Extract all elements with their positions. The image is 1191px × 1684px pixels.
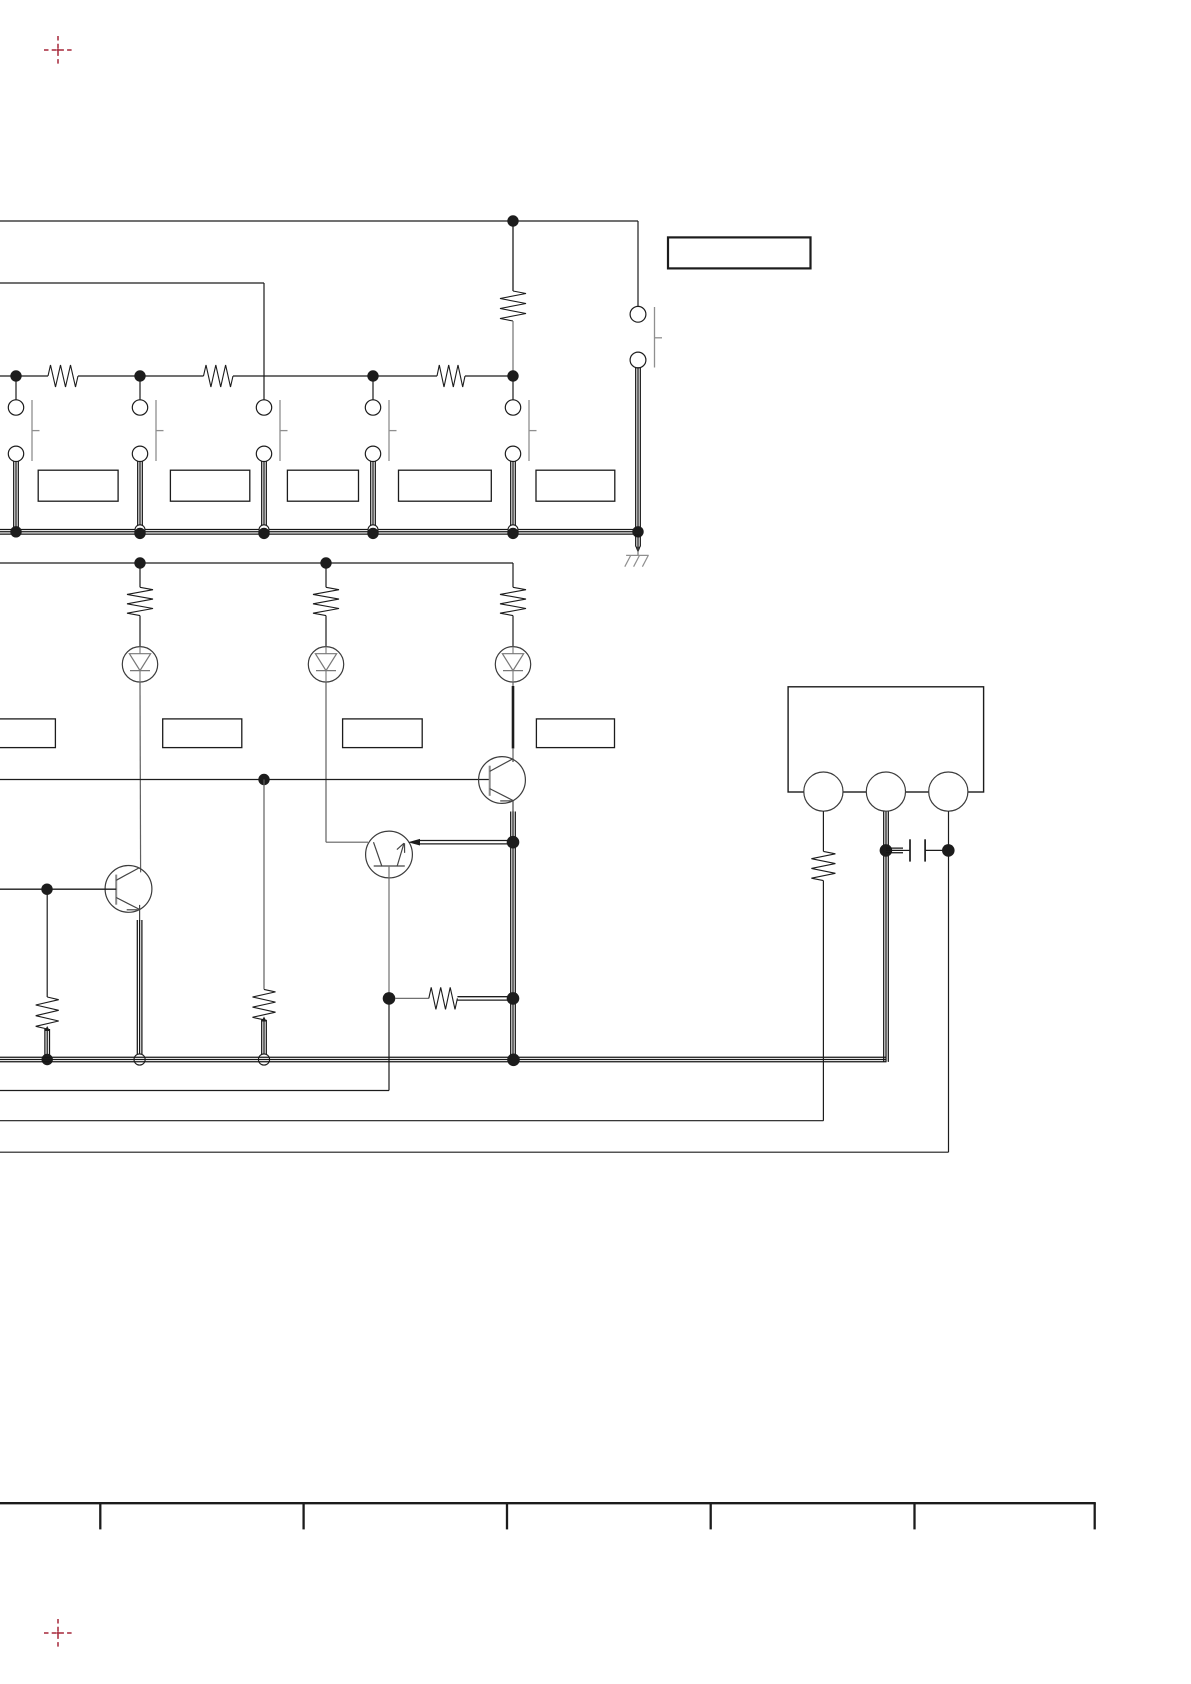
resistor R6 (vertical x=326): [313, 587, 339, 647]
wire chain segment a: [0, 375, 48, 377]
node dot at (373,376): [367, 370, 378, 400]
node dot bus1 x=16: [10, 526, 21, 537]
switch S5 (x=513): [505, 400, 536, 530]
connector pin circle 3: [929, 772, 968, 811]
node dot at (326,563): [320, 557, 331, 587]
label box row2-0: [0, 719, 55, 748]
node ring+dot bus1 x=140: [134, 525, 145, 539]
sheet border ruler: [0, 1503, 1096, 1529]
wire Q1 emitter to bus: [511, 801, 516, 1060]
switch S3 (x=264): [256, 400, 287, 530]
connector pin circle 1: [804, 772, 843, 811]
resistor R8 (vertical x=264): [253, 989, 276, 1055]
label box row1-3: [287, 470, 358, 501]
wire D3 cathode to Q1 collector: [512, 682, 514, 759]
wire Q1 collector: [512, 759, 514, 763]
label box row1-2: [170, 470, 249, 501]
transistor Q3 (npn x=128.5): [105, 866, 152, 913]
wire connector pin3 net: [0, 811, 949, 1152]
node dot at (948.3,850.4): [942, 844, 955, 857]
node dot bus2 x=47: [42, 1054, 53, 1065]
connector J1 box: [788, 687, 984, 792]
switch S6 power (x=638): [630, 221, 662, 530]
transistor Q1 (npn x=502): [479, 757, 526, 804]
wire Q3 emitter to bus2: [137, 905, 142, 1055]
wire chain segment d: [465, 375, 513, 377]
node ring+dot bus1 x=373: [367, 525, 378, 539]
resistor R5 (vertical x=140): [127, 587, 153, 647]
wire net LED supply y=563: [0, 563, 513, 587]
ground symbol: [625, 534, 649, 567]
label box row1-1: [38, 470, 118, 501]
switch S1 (x=16): [8, 400, 39, 530]
wire Q2 emitter thick line to x=513: [408, 839, 513, 846]
wire R11 net to left edge: [0, 1120, 823, 1122]
wire Q1 base net y=779.5: [0, 779, 490, 781]
capacitor C1: [886, 839, 943, 861]
wire D2 cathode to Q2 collector: [326, 682, 368, 842]
LED D3 (x=513): [495, 647, 530, 682]
wire net VCC top rail y=221: [0, 220, 638, 222]
node ring bus2 x=140: [134, 1054, 145, 1065]
resistor R4 (horizontal 437-465): [437, 365, 465, 387]
node dot at (389,998.4): [383, 992, 396, 1005]
node junction at (513,221): [507, 215, 518, 226]
label box row2-2: [343, 719, 423, 748]
node ring bus2 x=264: [258, 1054, 269, 1065]
node dot at (885.9,850.4): [880, 844, 893, 857]
node dot at (47,889.2): [41, 884, 52, 998]
node dot at (513,376): [507, 370, 518, 400]
bus wire 2 (triple y=1059.5): [0, 812, 888, 1062]
wire D1 cathode to Q3 collector: [139, 682, 142, 872]
wire chain segment b: [78, 375, 204, 377]
node dot bus2 x=513: [507, 1054, 520, 1067]
resistor R3 (horizontal 203.5-233): [204, 365, 234, 387]
node dot at (140,376): [134, 370, 145, 400]
resistor R1 (vertical at x=513, top): [500, 226, 526, 371]
resistor R11 (vertical x=823.4): [811, 811, 835, 1120]
label box row2-3: [536, 719, 614, 748]
resistor R2 (horizontal 48-78): [48, 365, 78, 387]
node dot at (140,563): [134, 557, 145, 587]
transistor Q2 (rotated npn x=389): [366, 831, 413, 878]
wire Q2 base net down-left: [0, 1004, 389, 1091]
label box row1-5: [536, 470, 615, 501]
node dot at (16,376): [10, 370, 21, 400]
bus wire GND (triple line y=531.8): [0, 530, 640, 535]
switch S4 (x=373): [365, 400, 396, 530]
registration mark (top left): [44, 36, 72, 64]
node ring+dot bus1 x=264: [258, 525, 269, 539]
resistor R7 (vertical x=513): [500, 587, 526, 647]
wire Q3 base net y=889.2: [0, 888, 116, 890]
registration mark (bottom left): [44, 1619, 72, 1647]
switch S2 (x=140): [132, 400, 163, 530]
LED D1 (x=140): [122, 647, 157, 682]
node ring+dot bus1 x=513: [507, 525, 518, 539]
wire net row2 y=283 to switch S3: [0, 283, 264, 401]
connector pin circle 2: [866, 772, 905, 811]
node dot at (513,998.4): [507, 992, 520, 1005]
label box top right: [668, 237, 811, 268]
node dot at (513,842.2): [507, 836, 520, 849]
wire Q2 base down: [388, 866, 390, 998]
node dot bus1 x=638: [632, 526, 643, 537]
LED D2 (x=326): [308, 647, 343, 682]
label box row2-1: [163, 719, 242, 748]
resistor R10 (vertical x=47): [36, 997, 59, 1058]
wire chain segment c: [233, 375, 437, 377]
resistor R9 (horizontal at y=998.4): [395, 987, 513, 1009]
node dot at (264,779.5): [258, 774, 269, 990]
label box row1-4: [399, 470, 492, 501]
